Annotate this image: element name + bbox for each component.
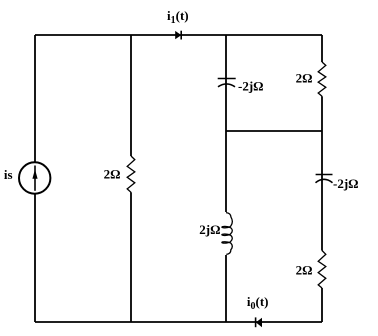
svg-text:2Ω: 2Ω <box>296 71 313 86</box>
svg-text:2jΩ: 2jΩ <box>199 222 220 237</box>
svg-text:is: is <box>4 167 13 182</box>
svg-text:-2jΩ: -2jΩ <box>238 78 264 93</box>
svg-text:-2jΩ: -2jΩ <box>333 176 359 191</box>
svg-text:2Ω: 2Ω <box>296 263 313 278</box>
svg-text:2Ω: 2Ω <box>104 167 121 182</box>
